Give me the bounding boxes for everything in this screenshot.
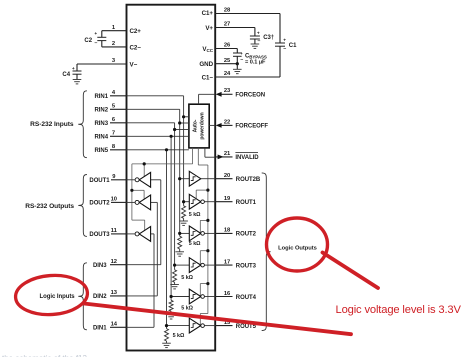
- net label DOUT1: [89, 178, 110, 184]
- svg-text:−: −: [94, 41, 97, 47]
- net label DIN1: [93, 326, 107, 332]
- svg-text:RS-232 Outputs: RS-232 Outputs: [25, 203, 74, 210]
- pin 6 RIN3 wire: [110, 122, 127, 124]
- wire enable stub driver 3: [132, 220, 145, 230]
- wire ROUT3 output: [204, 264, 215, 266]
- svg-text:C1−: C1−: [202, 74, 214, 81]
- svg-text:20: 20: [224, 173, 230, 179]
- svg-text:Logic voltage level is 3.3V: Logic voltage level is 3.3V: [336, 304, 462, 316]
- svg-text:11: 11: [111, 228, 118, 234]
- svg-text:FORCEOFF: FORCEOFF: [235, 124, 268, 130]
- wire RIN2 to ROUT2B receiver: [180, 178, 190, 180]
- svg-text:−: −: [283, 46, 286, 52]
- resistor R3 5k: [173, 270, 177, 283]
- label Logic Inputs: [40, 294, 76, 300]
- brace logic inputs group: [78, 263, 87, 330]
- wire RIN5 to ROUT5 receiver: [167, 325, 190, 327]
- wire enable stub receiver ROUT2: [200, 220, 208, 233]
- receiver RC (ROUT3): [189, 258, 204, 273]
- wire DIN3 riser to driver 1: [151, 180, 161, 265]
- svg-text:28: 28: [224, 8, 231, 14]
- junction RIN5 branch: [165, 148, 168, 151]
- svg-text:DIN1: DIN1: [93, 326, 107, 332]
- wire R3 to ground: [174, 282, 176, 284]
- svg-text:5 kΩ: 5 kΩ: [189, 241, 201, 247]
- svg-text:5: 5: [112, 104, 116, 110]
- svg-text:INVALID: INVALID: [235, 155, 259, 161]
- svg-text:3: 3: [112, 58, 116, 64]
- value label R1 5 kOhm: [189, 212, 201, 218]
- label C4: [62, 72, 70, 78]
- svg-text:ROUT3: ROUT3: [236, 263, 257, 269]
- capacitor C4: [72, 64, 82, 80]
- net label RIN5: [95, 148, 109, 154]
- pin 14 number: [111, 322, 118, 328]
- pin 11 DOUT3 wire: [111, 233, 127, 235]
- junction RIN4 branch: [170, 135, 173, 138]
- svg-text:17: 17: [224, 259, 230, 265]
- net label DIN3: [93, 263, 107, 269]
- pin 28 number: [224, 8, 231, 14]
- pin 11 number: [111, 228, 118, 234]
- svg-text:25: 25: [224, 58, 231, 64]
- svg-text:5 kΩ: 5 kΩ: [189, 212, 201, 218]
- pin 3 V- wire: [77, 63, 127, 65]
- ground below GND pin: [233, 64, 242, 74]
- brace RS-232 inputs group: [78, 91, 87, 158]
- wire T2 output: [127, 201, 136, 203]
- svg-text:RS-232 Inputs: RS-232 Inputs: [30, 121, 74, 128]
- wire enable stub driver 1: [143, 164, 145, 177]
- svg-text:21: 21: [224, 151, 231, 157]
- svg-text:+: +: [72, 67, 75, 72]
- svg-text:ROUT1: ROUT1: [236, 200, 257, 206]
- wire RIN1 stub to block: [184, 116, 189, 118]
- wire RIN2 to ROUT2 receiver: [180, 232, 190, 234]
- wire RIN3 stub to block: [175, 129, 189, 131]
- value label R4 5 kOhm: [181, 306, 193, 312]
- pin 17 number: [224, 259, 230, 265]
- ground below C3: [251, 44, 260, 48]
- net label FORCEOFF: [235, 124, 268, 130]
- net label RIN3: [95, 121, 109, 127]
- wire T3 output: [127, 233, 136, 235]
- svg-text:CBYPASS: CBYPASS: [245, 53, 267, 59]
- pin 23 FORCEON wire and arrow: [216, 92, 233, 97]
- pin 22 FORCEOFF wire and arrow: [216, 123, 233, 128]
- net label RIN4: [95, 135, 109, 141]
- pin 12 number: [111, 259, 117, 265]
- pin 26 VCC wire: [215, 48, 237, 50]
- svg-text:Logic Inputs: Logic Inputs: [40, 294, 76, 300]
- junction RIN2 block stub: [178, 121, 181, 124]
- pin 10 number: [111, 197, 117, 203]
- wire RIN4 vertical: [170, 136, 172, 300]
- label Logic Outputs: [278, 245, 317, 251]
- pin 28 C1+ wire: [215, 13, 280, 15]
- svg-text:16: 16: [224, 291, 231, 297]
- pin 15 number: [224, 320, 231, 326]
- pin 24 number: [224, 71, 231, 77]
- svg-text:22: 22: [224, 119, 230, 125]
- red callout line from Logic Inputs: [84, 304, 351, 335]
- svg-text:GND: GND: [199, 61, 213, 68]
- pin 18 ROUT2 wire: [215, 232, 232, 234]
- junction RIN3 ROUT3 input: [173, 264, 176, 267]
- net label ROUT3: [236, 263, 257, 269]
- label CBYPASS value: [245, 53, 267, 65]
- pin 23 number: [224, 88, 231, 94]
- pin 8 number: [112, 144, 116, 150]
- junction RIN1 block stub: [182, 115, 185, 118]
- value label R3 5 kOhm: [181, 275, 193, 281]
- capacitor C1: [275, 14, 286, 78]
- net label DIN2: [93, 294, 107, 300]
- net label RIN2: [95, 108, 109, 114]
- wire driver-enable from block: [132, 148, 193, 220]
- wire RIN5 vertical: [166, 150, 168, 329]
- port label C1-: [202, 74, 214, 81]
- svg-text:2: 2: [112, 41, 115, 47]
- junction enable ROUT3: [206, 249, 209, 252]
- svg-text:DIN2: DIN2: [93, 294, 107, 300]
- wire ROUT5 output: [204, 325, 215, 327]
- pin 21 number: [224, 151, 231, 157]
- wire ROUT2B output: [201, 178, 215, 180]
- svg-text:9: 9: [112, 174, 116, 180]
- port label C2+: [130, 28, 142, 35]
- receiver RA (ROUT1): [189, 194, 204, 209]
- junction enable ROUT2: [206, 219, 209, 222]
- auto-powerdown block U1a: [189, 104, 209, 148]
- red ellipse around Logic Outputs: [267, 218, 328, 271]
- net label INVALID overbar: [235, 153, 259, 162]
- svg-text:C2+: C2+: [130, 28, 142, 35]
- pin 2 number: [112, 41, 115, 47]
- value label R5 5 kOhm: [173, 333, 185, 339]
- svg-text:+: +: [257, 31, 260, 36]
- wire RIN2 stub to block: [180, 122, 189, 124]
- pin 25 GND wire: [215, 63, 237, 65]
- wire DIN2 riser to driver 2: [151, 202, 158, 296]
- net label ROUT2: [236, 232, 257, 238]
- wire enable stub receiver ROUT1: [196, 190, 208, 198]
- wire INVALID from block: [205, 148, 215, 157]
- junction RIN4 ROUT4 input: [170, 295, 173, 298]
- svg-text:14: 14: [111, 322, 118, 328]
- wire ROUT4 output: [204, 296, 215, 298]
- capacitor CBYPASS: [233, 49, 243, 64]
- pin 22 number: [224, 119, 230, 125]
- wire RIN4 horizontal to block: [127, 135, 189, 137]
- wire enable stub driver 2: [132, 190, 144, 199]
- port label C1+: [202, 10, 214, 17]
- label C2: [84, 38, 92, 44]
- svg-text:VCC: VCC: [202, 46, 213, 53]
- pin 27 V+ wire: [215, 27, 255, 29]
- port label V+: [205, 25, 213, 32]
- wire RIN1 horizontal: [127, 95, 184, 97]
- pin 10 DOUT2 wire: [111, 201, 127, 203]
- svg-text:Auto-: Auto-: [192, 119, 198, 132]
- IC body U1 (28-pin RS-232 transceiver): [127, 5, 216, 351]
- brace logic outputs group: [262, 173, 271, 331]
- junction RIN3 block stub: [173, 128, 176, 131]
- wire RIN3 vertical: [174, 123, 176, 270]
- red callout line from Logic Outputs: [323, 253, 379, 289]
- driver T1 (DOUT1): [135, 172, 151, 187]
- port label C2-: [130, 44, 142, 51]
- resistor R5 5k: [165, 329, 169, 341]
- resistor R2 5k: [178, 236, 182, 249]
- svg-text:RIN5: RIN5: [95, 148, 109, 154]
- svg-text:RIN1: RIN1: [95, 94, 109, 100]
- junction RIN2 ROUT2 input: [178, 232, 181, 235]
- svg-text:5 kΩ: 5 kΩ: [173, 333, 185, 339]
- pin 4 RIN1 wire: [110, 95, 127, 97]
- net label FORCEON: [235, 93, 265, 99]
- svg-text:RIN3: RIN3: [95, 121, 109, 127]
- pin 20 ROUT2B wire: [215, 178, 232, 180]
- pin 1 number: [112, 25, 116, 31]
- ground below R5: [162, 343, 171, 347]
- wire RIN1 to ROUT1 receiver: [184, 201, 190, 203]
- port label VCC: [202, 46, 213, 53]
- svg-text:RIN2: RIN2: [95, 108, 109, 114]
- pin 26 number: [224, 43, 231, 49]
- capacitor C3: [250, 28, 260, 45]
- pin 16 ROUT4 wire: [215, 296, 232, 298]
- receiver RB (ROUT2): [189, 226, 204, 241]
- junction enable driver 1: [143, 162, 146, 165]
- pin 1 C2+ wire: [102, 30, 127, 32]
- svg-text:RIN4: RIN4: [95, 135, 109, 141]
- pin 24 C1- wire: [215, 76, 280, 78]
- wire DIN1 horizontal: [127, 326, 155, 328]
- pin 27 number: [224, 22, 230, 28]
- receiver RE (ROUT5): [189, 318, 204, 333]
- svg-text:DOUT2: DOUT2: [89, 201, 110, 207]
- svg-text:V−: V−: [130, 61, 138, 68]
- svg-text:19: 19: [224, 196, 231, 202]
- wire receiver-enable from block: [198, 148, 208, 314]
- faint clipped caption: [2, 354, 87, 357]
- pin 21 INVALID wire and arrow: [215, 155, 232, 160]
- svg-text:23: 23: [224, 88, 231, 94]
- net label DOUT3: [89, 232, 110, 238]
- wire RIN2 vertical: [179, 109, 181, 236]
- pin 4 number: [112, 90, 116, 96]
- svg-text:C1+: C1+: [202, 10, 214, 17]
- capacitor C2: [94, 31, 106, 47]
- svg-text:ROUT4: ROUT4: [236, 295, 257, 301]
- pin 7 number: [112, 131, 115, 137]
- wire R2 to ground: [179, 249, 181, 252]
- wire RIN5 horizontal to block: [127, 149, 189, 151]
- wire enable stub receiver ROUT4: [200, 284, 208, 296]
- pin 7 RIN4 wire: [110, 135, 127, 137]
- pin 8 RIN5 wire: [110, 149, 127, 151]
- svg-text:+: +: [283, 38, 286, 43]
- wire T1 output: [127, 179, 136, 181]
- brace RS-232 outputs group: [78, 175, 87, 237]
- pin 15 ROUT5 wire: [215, 325, 232, 327]
- ground below R4: [167, 315, 176, 319]
- pin 13 number: [111, 290, 118, 296]
- wire RIN1 vertical: [183, 96, 185, 206]
- junction enable ROUT1: [206, 189, 209, 192]
- net label ROUT2B: [236, 177, 261, 183]
- ground below R3: [170, 285, 179, 289]
- label RS-232 Outputs: [25, 203, 74, 210]
- svg-text:C4: C4: [62, 72, 70, 78]
- pin 19 ROUT1 wire: [215, 201, 232, 203]
- wire FORCEON into block: [199, 94, 216, 104]
- net label ROUT4: [236, 295, 257, 301]
- wire DIN1 riser to driver 3: [151, 234, 154, 327]
- svg-text:powerdown: powerdown: [199, 112, 205, 139]
- wire RIN4 to ROUT4 receiver: [171, 296, 189, 298]
- svg-text:C3†: C3†: [263, 35, 274, 41]
- junction RIN5 ROUT5 input: [165, 324, 168, 327]
- pin 18 number: [224, 228, 231, 234]
- wire R5 to ground: [166, 341, 168, 343]
- svg-text:C2: C2: [84, 38, 92, 44]
- wire ROUT2 output: [204, 232, 215, 234]
- svg-text:FORCEON: FORCEON: [235, 93, 265, 99]
- junction RIN2 ROUT2B input: [178, 177, 181, 180]
- svg-text:5 kΩ: 5 kΩ: [181, 275, 193, 281]
- pin 5 number: [112, 104, 116, 110]
- wire enable stub receiver ROUT3: [200, 251, 208, 265]
- pin 20 number: [224, 173, 230, 179]
- pin 9 DOUT1 wire: [111, 179, 127, 181]
- pin 12 DIN3 wire: [110, 264, 127, 266]
- pin 5 RIN2 wire: [110, 108, 127, 110]
- svg-text:= 0.1 µF: = 0.1 µF: [245, 60, 266, 66]
- resistor R1 5k: [182, 206, 186, 219]
- ground below R1: [179, 221, 188, 225]
- ground below C4: [73, 80, 82, 84]
- svg-text:5 kΩ: 5 kΩ: [181, 306, 193, 312]
- wire R1 to ground: [183, 218, 185, 221]
- pin 6 number: [112, 117, 116, 123]
- svg-text:26: 26: [224, 43, 231, 49]
- red ellipse around Logic Inputs: [14, 273, 89, 317]
- red annotation text: [336, 304, 462, 316]
- receiver RD (ROUT4): [189, 289, 204, 304]
- net label ROUT1: [236, 200, 257, 206]
- svg-text:24: 24: [224, 71, 231, 77]
- junction enable ROUT4: [206, 282, 209, 285]
- wire FORCEOFF into block: [209, 124, 215, 126]
- port label GND: [199, 61, 213, 68]
- svg-text:27: 27: [224, 22, 230, 28]
- svg-text:−: −: [240, 57, 243, 63]
- svg-text:C1: C1: [289, 43, 297, 49]
- label C3 dagger: [263, 35, 274, 41]
- port label V-: [130, 61, 138, 68]
- wire RIN2 horizontal: [127, 108, 180, 110]
- receiver R2B (ROUT2B, no bubble): [189, 171, 201, 186]
- svg-text:6: 6: [112, 117, 116, 123]
- svg-text:10: 10: [111, 197, 117, 203]
- svg-text:DOUT3: DOUT3: [89, 232, 110, 238]
- net label RIN1: [95, 94, 109, 100]
- net label ROUT5: [236, 324, 257, 330]
- pin 25 number: [224, 58, 231, 64]
- pin 16 number: [224, 291, 231, 297]
- svg-text:12: 12: [111, 259, 117, 265]
- pin 14 DIN1 wire: [110, 326, 127, 328]
- resistor R4 5k: [169, 300, 173, 311]
- svg-text:18: 18: [224, 228, 231, 234]
- svg-text:DOUT1: DOUT1: [89, 178, 110, 184]
- pin 9 number: [112, 174, 116, 180]
- pin 3 number: [112, 58, 116, 64]
- junction enable driver 2: [130, 189, 133, 192]
- svg-text:4: 4: [112, 90, 116, 96]
- wire RIN3 horizontal: [127, 122, 175, 124]
- svg-text:ROUT2B: ROUT2B: [236, 177, 261, 183]
- net label DOUT2: [89, 201, 110, 207]
- pin 13 DIN2 wire: [110, 295, 127, 297]
- wire R4 to ground: [170, 311, 172, 314]
- pin 17 ROUT3 wire: [215, 264, 232, 266]
- svg-text:13: 13: [111, 290, 118, 296]
- junction CBYPASS-GND: [236, 62, 239, 65]
- junction RIN1 ROUT1 input: [182, 200, 185, 203]
- label C1: [289, 43, 297, 49]
- label RS-232 Inputs: [30, 121, 74, 128]
- svg-text:DIN3: DIN3: [93, 263, 107, 269]
- driver T2 (DOUT2): [135, 195, 151, 210]
- svg-text:8: 8: [112, 144, 116, 150]
- svg-text:V+: V+: [205, 25, 213, 32]
- pin 2 C2- wire: [102, 46, 127, 48]
- svg-text:7: 7: [112, 131, 115, 137]
- value label R2 5 kOhm: [189, 241, 201, 247]
- wire DIN2 horizontal: [127, 295, 158, 297]
- svg-text:1: 1: [112, 25, 116, 31]
- svg-text:ROUT2: ROUT2: [236, 232, 257, 238]
- svg-text:+: +: [94, 32, 97, 37]
- wire enable stub receiver ROUT5: [200, 314, 208, 326]
- ground below R2: [175, 252, 184, 256]
- wire ROUT1 output: [204, 201, 215, 203]
- svg-text:+: +: [240, 52, 243, 57]
- svg-text:C2−: C2−: [130, 44, 142, 51]
- svg-text:Logic Outputs: Logic Outputs: [278, 245, 317, 251]
- wire DIN3 horizontal: [127, 264, 161, 266]
- wire RIN3 to ROUT3 receiver: [175, 264, 190, 266]
- driver T3 (DOUT3): [135, 227, 151, 242]
- pin 19 number: [224, 196, 231, 202]
